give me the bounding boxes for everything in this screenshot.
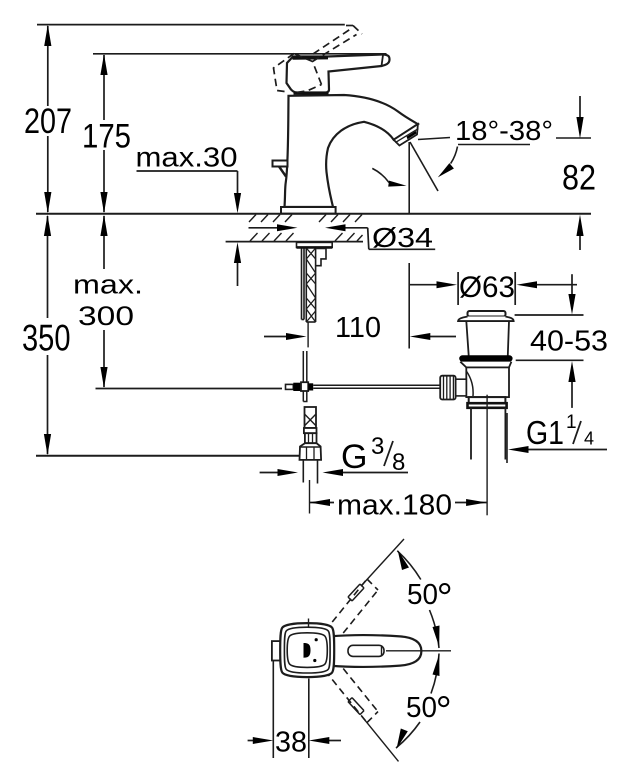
handle knuckle squircle outer [280, 623, 334, 677]
svg-text:Ø63: Ø63 [459, 271, 515, 304]
countertop hatching upper-left [249, 215, 292, 223]
solid lever (side view) [287, 55, 390, 93]
50 degree arcs [396, 551, 439, 748]
handle arm top view [330, 635, 421, 667]
svg-text:207: 207 [24, 102, 72, 141]
pop-up knob tab left [273, 161, 288, 177]
18-38 label leader [418, 138, 591, 145]
pop-up rod vertical [303, 351, 307, 402]
svg-text:350: 350 [22, 318, 71, 359]
handle top view solid [272, 623, 422, 677]
horizontal centerline [386, 650, 451, 652]
lever top edge thick [293, 56, 329, 60]
dimension 175 [103, 55, 105, 212]
dimension 207 [47, 26, 49, 212]
svg-text:G1: G1 [526, 414, 564, 451]
reference line second (lever rest height) [93, 53, 387, 55]
lever tip end cap [382, 55, 384, 66]
lower flange [460, 362, 511, 368]
arm slot [348, 645, 384, 656]
o-ring black band [459, 355, 512, 361]
countertop bottom line [226, 241, 363, 243]
flexible hose braided section [304, 407, 317, 443]
lever bottom edge thick [294, 92, 329, 95]
G3/8 connection nut [300, 443, 322, 460]
dimension max.30 [137, 171, 238, 286]
dimension 110 [264, 336, 456, 338]
horizontal pop-up rod to valve [313, 385, 441, 388]
squircle ring 2 [284, 627, 330, 673]
dimension 82 [579, 96, 581, 250]
tube centerline [486, 395, 488, 516]
svg-text:50: 50 [407, 579, 438, 611]
valve body [466, 367, 509, 397]
svg-text:max.180: max.180 [337, 490, 452, 522]
dimension 40-53 [515, 274, 584, 408]
dimension 350 [47, 216, 49, 454]
mounting bracket steps [316, 249, 326, 266]
svg-text:175: 175 [82, 118, 131, 156]
valve top flange [458, 317, 514, 322]
reference line top (lever max height) [37, 24, 345, 26]
svg-text:8: 8 [392, 449, 405, 476]
valve neck [466, 321, 509, 355]
svg-text:18°-38°: 18°-38° [455, 115, 553, 146]
dimension max.300 [103, 216, 105, 387]
collar rings [469, 397, 506, 403]
dashed lever up 50 [325, 579, 378, 642]
squircle inner face [287, 633, 327, 668]
dimension 38 [248, 661, 341, 759]
countertop surface line [36, 213, 591, 215]
outlet tube [471, 408, 505, 460]
svg-text:max.30: max.30 [136, 142, 238, 173]
G3/8 label [260, 433, 408, 476]
logo hole dark [304, 643, 311, 658]
hose centerline extension [309, 480, 311, 514]
svg-text:50: 50 [406, 692, 437, 724]
hose end reference line [36, 455, 301, 457]
18-38 angle arcs [372, 147, 457, 183]
washer under counter [297, 242, 333, 247]
pop-up drain valve [440, 311, 514, 515]
countertop hatching lower-right [335, 233, 363, 241]
svg-text:G: G [341, 438, 367, 476]
center tick marks [308, 619, 310, 627]
shank centerline [307, 322, 309, 347]
svg-text:300: 300 [78, 301, 134, 331]
dashed lever (raised position, side view) [274, 26, 363, 93]
ray down [362, 717, 399, 762]
dimension Ø34 [249, 228, 436, 250]
svg-text:3: 3 [371, 433, 384, 460]
svg-text:110: 110 [335, 312, 381, 344]
left tab top view [272, 641, 282, 660]
svg-text:82: 82 [562, 159, 596, 198]
rod cross fitting [286, 382, 314, 391]
svg-text:max.: max. [73, 270, 143, 300]
rod depth reference line [96, 388, 283, 390]
dimension max.180 [310, 490, 487, 522]
knurled knob [456, 379, 467, 396]
dashed lever down 50 [325, 660, 378, 723]
G1 1/4 label [507, 412, 607, 463]
faucet body and spout [285, 95, 418, 207]
faucet plinth base [281, 207, 336, 214]
countertop hatching upper-right [319, 215, 362, 223]
ray up [362, 539, 404, 585]
thread cross pattern [306, 248, 315, 322]
dimension Ø63 [409, 272, 577, 305]
svg-text:38: 38 [275, 727, 307, 759]
svg-text:1: 1 [566, 412, 577, 433]
countertop hatching lower-left [250, 233, 294, 241]
svg-text:4: 4 [584, 429, 594, 449]
threaded shank below counter [302, 248, 316, 322]
hose below nut [303, 460, 317, 484]
svg-text:Ø34: Ø34 [372, 222, 433, 253]
dashed lever slot down [348, 698, 364, 715]
valve top cap [468, 311, 506, 317]
aerator spout end [394, 124, 419, 145]
dashed lever slot up [348, 584, 364, 601]
svg-text:40-53: 40-53 [530, 326, 608, 358]
angle rays at aerator [409, 142, 438, 349]
